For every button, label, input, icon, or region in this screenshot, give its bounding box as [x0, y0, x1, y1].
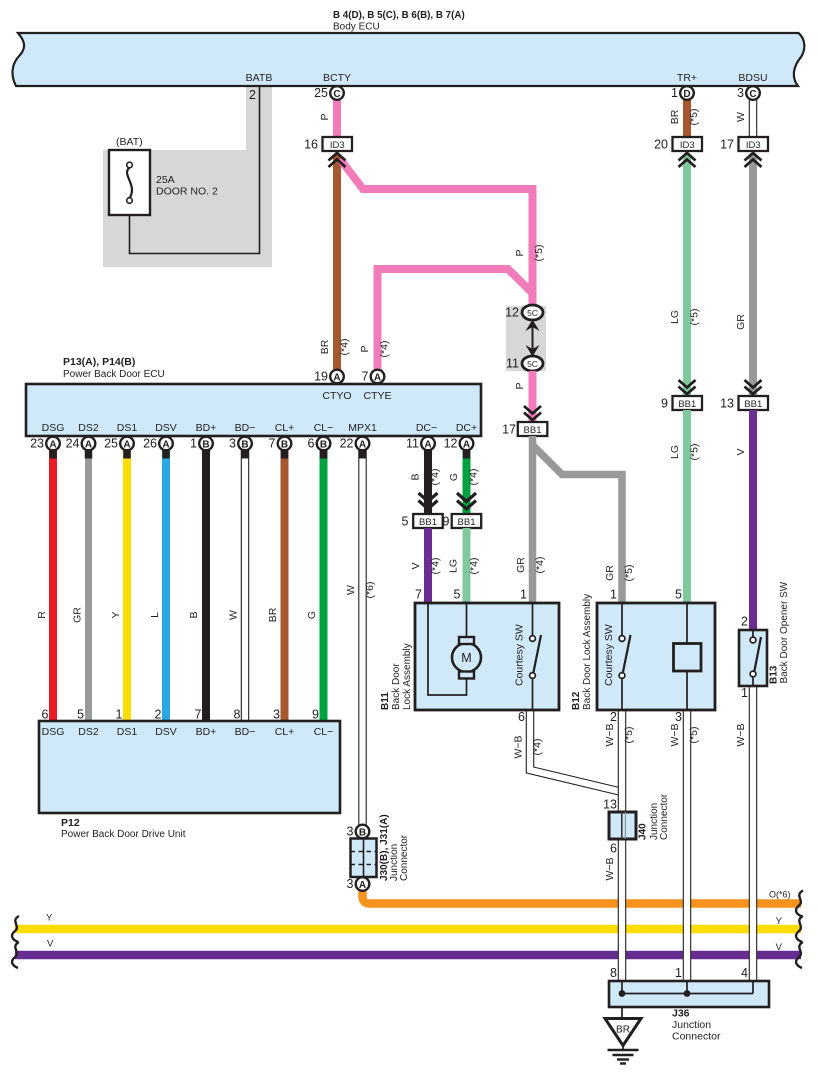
- wire GR (BDSU column): [749, 155, 757, 395]
- pin lead stub DSV: [162, 449, 170, 459]
- svg-text:2: 2: [249, 88, 256, 102]
- motor M: [452, 643, 481, 672]
- svg-text:7: 7: [195, 708, 202, 722]
- svg-text:P12: P12: [61, 817, 80, 829]
- wire LG (BB1 to B11 pin5): [463, 528, 471, 603]
- P12 box: [39, 721, 340, 813]
- wire BR from TR+: [683, 95, 691, 140]
- svg-text:(*6): (*6): [364, 582, 376, 599]
- connector 20 ID3: [673, 137, 703, 151]
- double arrow between 5C pins: [532, 326, 534, 350]
- chevron down above 13 BB1: [745, 380, 762, 394]
- svg-text:P: P: [359, 345, 371, 352]
- wire P branch to 5C: [340, 159, 533, 306]
- torn mark violet left: [12, 942, 19, 968]
- svg-text:9: 9: [443, 515, 450, 529]
- svg-text:7: 7: [269, 437, 276, 451]
- svg-text:CL+: CL+: [275, 422, 295, 434]
- svg-text:BB1: BB1: [678, 399, 696, 410]
- svg-text:Body ECU: Body ECU: [333, 22, 380, 33]
- pin lead stub DC+: [463, 449, 471, 459]
- svg-text:5: 5: [77, 708, 84, 722]
- torn mark yellow right: [796, 916, 803, 942]
- svg-text:BR: BR: [319, 339, 331, 354]
- chevron down above 9 BB1: [679, 380, 696, 394]
- svg-text:5: 5: [402, 515, 409, 529]
- svg-text:A: A: [123, 439, 130, 450]
- svg-text:(*4): (*4): [339, 339, 351, 356]
- svg-text:GR: GR: [515, 557, 527, 573]
- svg-text:Y: Y: [776, 916, 783, 927]
- svg-text:11: 11: [506, 357, 519, 371]
- svg-text:16: 16: [304, 138, 318, 152]
- svg-text:4: 4: [741, 966, 748, 980]
- J40 junction connector: [609, 812, 636, 839]
- svg-text:ID3: ID3: [746, 140, 761, 151]
- J36 junction connector: [609, 981, 769, 1007]
- wire P from BCTY: [333, 95, 341, 140]
- wire V (BB1 to B13 pin2): [749, 410, 757, 630]
- svg-text:9: 9: [312, 708, 319, 722]
- svg-text:P13(A), P14(B): P13(A), P14(B): [63, 356, 135, 368]
- svg-text:(*5): (*5): [623, 727, 635, 744]
- wire W-B (B11 pin6 to J40): [530, 710, 620, 792]
- svg-text:Y: Y: [46, 913, 53, 924]
- svg-text:Back Door Lock Assembly: Back Door Lock Assembly: [582, 594, 593, 710]
- svg-text:1: 1: [741, 686, 748, 700]
- svg-text:(*4): (*4): [532, 739, 544, 756]
- pin circle 26 A DSV: [143, 437, 173, 451]
- chevron down above 17 BB1: [524, 406, 541, 420]
- svg-text:(*5): (*5): [689, 309, 701, 326]
- svg-text:2: 2: [610, 710, 617, 724]
- wire GR branch to B12 courtesy SW: [533, 445, 623, 603]
- B13 Back Door Opener SW box: [739, 630, 767, 686]
- svg-text:BR: BR: [616, 1025, 630, 1036]
- svg-text:1: 1: [675, 966, 682, 980]
- svg-text:(BAT): (BAT): [116, 136, 143, 148]
- Body ECU bus bar: [13, 33, 805, 86]
- svg-text:DS2: DS2: [78, 726, 99, 738]
- svg-text:DC−: DC−: [416, 422, 437, 434]
- svg-text:A: A: [374, 372, 381, 383]
- pin circle 1 B BD+: [190, 437, 213, 451]
- svg-text:Back Door Opener SW: Back Door Opener SW: [779, 581, 790, 683]
- svg-text:5C: 5C: [527, 359, 538, 369]
- svg-text:G: G: [448, 473, 460, 481]
- svg-text:DSV: DSV: [155, 726, 177, 738]
- svg-text:1: 1: [520, 588, 527, 602]
- svg-text:Back Door: Back Door: [391, 663, 402, 710]
- svg-text:6: 6: [518, 710, 525, 724]
- svg-text:D: D: [683, 89, 690, 100]
- svg-text:17: 17: [720, 138, 734, 152]
- junction dot J36 pin8: [619, 990, 626, 997]
- wire LG (TR+ column): [683, 155, 691, 395]
- svg-text:BR: BR: [267, 607, 279, 622]
- svg-text:BATB: BATB: [246, 72, 273, 84]
- shaded battery-feed region: [103, 86, 272, 267]
- svg-text:W: W: [735, 112, 747, 122]
- junction dot J36 pin1: [684, 990, 691, 997]
- svg-text:3: 3: [273, 708, 280, 722]
- svg-text:ID3: ID3: [680, 140, 695, 151]
- svg-text:W−B: W−B: [604, 723, 616, 746]
- svg-text:3: 3: [347, 825, 354, 839]
- chevron up under 17 ID3: [745, 153, 762, 167]
- svg-text:6: 6: [42, 708, 49, 722]
- svg-text:B: B: [410, 473, 422, 480]
- wire GR (DS2 to P12-5): [85, 450, 92, 722]
- B11 internal wiring: [428, 603, 467, 695]
- svg-text:GR: GR: [604, 565, 616, 581]
- bus violet V: [15, 951, 801, 960]
- svg-text:LG: LG: [669, 310, 681, 324]
- svg-text:Courtesy SW: Courtesy SW: [514, 624, 526, 686]
- torn mark orange right: [796, 891, 803, 917]
- svg-text:W: W: [345, 585, 357, 595]
- pin lead stub DSG: [49, 449, 57, 459]
- pin circle 3 B BD-: [229, 437, 252, 451]
- svg-text:BD+: BD+: [196, 422, 217, 434]
- svg-text:CL+: CL+: [275, 726, 295, 738]
- svg-text:13: 13: [720, 397, 734, 411]
- wire B (BD+ to P12-7): [202, 450, 210, 722]
- svg-text:(*4): (*4): [534, 557, 546, 574]
- wire W-B (B12 pin2 through J40 to J36 pin8): [618, 709, 627, 981]
- svg-text:V: V: [47, 939, 54, 950]
- svg-text:(*5): (*5): [688, 109, 700, 126]
- svg-text:25A: 25A: [156, 174, 175, 186]
- svg-text:BDSU: BDSU: [738, 72, 767, 84]
- svg-text:(*4): (*4): [430, 558, 442, 575]
- svg-text:24: 24: [66, 437, 80, 451]
- pin circle 25 A DS1: [104, 437, 134, 451]
- wire G (DC+ to BB1): [463, 450, 471, 513]
- svg-text:3: 3: [347, 877, 354, 891]
- svg-text:W: W: [228, 610, 240, 620]
- pin lead stub DC-: [424, 449, 432, 459]
- svg-text:5C: 5C: [527, 308, 538, 318]
- bus yellow Y: [15, 925, 801, 934]
- svg-text:B12: B12: [571, 691, 582, 710]
- svg-text:C: C: [333, 89, 340, 100]
- B13 switch: [752, 630, 754, 686]
- svg-text:P: P: [514, 249, 526, 256]
- svg-text:1: 1: [190, 437, 197, 451]
- J30/J31 junction connector: [347, 825, 370, 839]
- connector 17 BB1: [518, 422, 548, 436]
- svg-text:B13: B13: [769, 665, 780, 684]
- shaded 5C connector region: [506, 306, 546, 371]
- svg-text:25: 25: [104, 437, 118, 451]
- connector 17 ID3: [739, 137, 769, 151]
- svg-text:V: V: [776, 942, 783, 953]
- svg-text:8: 8: [610, 966, 617, 980]
- wire G (CL- to P12-9): [320, 450, 328, 722]
- svg-text:DS2: DS2: [78, 422, 99, 434]
- svg-text:17: 17: [502, 423, 516, 437]
- wire Y (DS1 to P12-1): [123, 450, 131, 722]
- svg-text:DS1: DS1: [117, 726, 138, 738]
- svg-text:Power Back Door Drive Unit: Power Back Door Drive Unit: [61, 829, 186, 840]
- svg-text:BB1: BB1: [458, 517, 476, 528]
- connector 16 ID3: [323, 137, 353, 151]
- ground symbol: [622, 1046, 624, 1050]
- torn mark yellow left: [12, 916, 19, 942]
- pin circle 11 A DC-: [406, 437, 435, 451]
- svg-text:MPX1: MPX1: [348, 422, 377, 434]
- connector 9 BB1 (DC+): [452, 514, 482, 528]
- torn mark violet right: [796, 942, 803, 968]
- svg-text:DOOR NO. 2: DOOR NO. 2: [156, 186, 218, 198]
- svg-text:B 4(D), B 5(C), B 6(B), B 7(A): B 4(D), B 5(C), B 6(B), B 7(A): [333, 10, 465, 21]
- svg-text:(*5): (*5): [623, 565, 635, 582]
- svg-text:W−B: W−B: [604, 857, 616, 880]
- Power Back Door ECU box: [26, 384, 481, 436]
- svg-text:GR: GR: [72, 607, 84, 623]
- svg-text:7: 7: [415, 588, 422, 602]
- svg-text:(*5): (*5): [689, 444, 701, 461]
- B12 Back Door Lock Assembly box: [597, 603, 715, 710]
- wire GR (17 BB1 to B11 courtesy SW): [529, 436, 537, 603]
- svg-text:J40: J40: [638, 823, 649, 840]
- svg-text:BB1: BB1: [524, 425, 542, 436]
- pin circle 19 A CTYO: [330, 370, 344, 384]
- svg-text:B: B: [241, 439, 248, 450]
- svg-text:3: 3: [737, 86, 744, 100]
- svg-text:W−B: W−B: [513, 735, 525, 758]
- pin circle 12 A DC+: [444, 437, 474, 451]
- svg-text:(*4): (*4): [468, 558, 480, 575]
- svg-text:LG: LG: [448, 559, 460, 573]
- chevron up under 16 ID3: [329, 153, 346, 167]
- svg-text:V: V: [735, 448, 747, 455]
- svg-text:Y: Y: [110, 611, 122, 618]
- wire P to CTYE: [378, 269, 533, 370]
- svg-text:B: B: [188, 611, 200, 618]
- B11 courtesy switch: [532, 603, 534, 710]
- pin circle 24 A DS2: [66, 437, 96, 451]
- pin circle 6 B CL-: [308, 437, 331, 451]
- svg-text:(*5): (*5): [533, 245, 545, 262]
- wire W-B (B13 pin1 to J36 pin4): [749, 686, 758, 981]
- pin lead stub MPX1: [359, 449, 367, 459]
- svg-text:20: 20: [654, 138, 668, 152]
- svg-text:5: 5: [675, 588, 682, 602]
- chevron up under 20 ID3: [679, 153, 696, 167]
- svg-text:CTYO: CTYO: [322, 390, 351, 402]
- svg-text:GR: GR: [735, 314, 747, 330]
- svg-text:DSG: DSG: [42, 422, 65, 434]
- pin circle 3 C (BDSU): [746, 86, 760, 100]
- svg-text:A: A: [162, 439, 169, 450]
- svg-text:A: A: [49, 439, 56, 450]
- svg-text:BB1: BB1: [744, 399, 762, 410]
- svg-text:DSV: DSV: [155, 422, 177, 434]
- svg-text:Connector: Connector: [672, 1031, 721, 1043]
- svg-text:CL−: CL−: [314, 422, 334, 434]
- svg-text:B: B: [359, 827, 366, 838]
- svg-text:V: V: [410, 562, 422, 569]
- svg-text:P: P: [319, 113, 331, 120]
- svg-text:Lock Assembly: Lock Assembly: [402, 643, 413, 710]
- svg-text:19: 19: [314, 370, 328, 384]
- svg-text:O(*6): O(*6): [769, 890, 791, 900]
- svg-text:1: 1: [116, 708, 123, 722]
- connector 13 BB1: [739, 396, 769, 410]
- wire L (DSV to P12-2): [162, 450, 170, 722]
- oval 12 5C: [522, 305, 543, 320]
- svg-text:BD+: BD+: [196, 726, 217, 738]
- svg-text:ID3: ID3: [330, 140, 345, 151]
- svg-text:A: A: [359, 439, 366, 450]
- svg-text:26: 26: [143, 437, 157, 451]
- pin circle 22 A MPX1: [340, 437, 370, 451]
- fuse DOOR NO.2 box: [109, 150, 150, 215]
- B11 Back Door Lock Assembly box: [415, 603, 559, 710]
- svg-text:BR: BR: [669, 109, 681, 124]
- svg-text:R: R: [36, 611, 48, 619]
- svg-text:CTYE: CTYE: [363, 390, 391, 402]
- wire R (DSG to P12-6): [49, 450, 57, 722]
- wire LG (BB1 to B12 pin5): [683, 410, 691, 603]
- pin lead stub CL+: [281, 449, 289, 459]
- svg-text:TR+: TR+: [677, 72, 697, 84]
- svg-text:BB1: BB1: [419, 517, 437, 528]
- svg-text:3: 3: [229, 437, 236, 451]
- svg-text:6: 6: [308, 437, 315, 451]
- svg-text:W−B: W−B: [669, 723, 681, 746]
- svg-text:22: 22: [340, 437, 354, 451]
- svg-text:12: 12: [505, 306, 519, 320]
- svg-text:25: 25: [314, 86, 328, 100]
- pin circle 7 B CL+: [269, 437, 292, 451]
- svg-text:A: A: [463, 439, 470, 450]
- svg-text:(*4): (*4): [379, 341, 391, 358]
- wire BR (CL+ to P12-3): [281, 450, 289, 722]
- svg-text:13: 13: [603, 798, 617, 812]
- svg-text:2: 2: [155, 708, 162, 722]
- svg-text:BD−: BD−: [235, 726, 256, 738]
- svg-text:11: 11: [406, 437, 419, 451]
- wire BR (BCTY to CTYO): [333, 155, 341, 370]
- svg-text:(*5): (*5): [688, 727, 700, 744]
- svg-text:8: 8: [234, 708, 241, 722]
- svg-text:(*4): (*4): [468, 469, 480, 486]
- svg-text:A: A: [85, 439, 92, 450]
- pin lead stub DS1: [123, 449, 131, 459]
- wire P (5C to BB1): [529, 371, 537, 421]
- pin circle 23 A DSG: [30, 437, 60, 451]
- svg-text:G: G: [306, 611, 318, 619]
- svg-text:9: 9: [661, 397, 668, 411]
- svg-text:B: B: [281, 439, 288, 450]
- svg-text:DC+: DC+: [456, 422, 477, 434]
- pin circle 25 C (BCTY): [330, 86, 344, 100]
- svg-text:A: A: [333, 372, 340, 383]
- B12 latch block: [686, 603, 688, 709]
- svg-text:BD−: BD−: [235, 422, 256, 434]
- pin lead stub CL-: [320, 449, 328, 459]
- wire V (BB1 to B11 pin7): [424, 528, 432, 603]
- wire B (DC- to BB1): [424, 450, 432, 513]
- pin circle 1 D (TR+): [680, 86, 694, 100]
- svg-text:A: A: [424, 439, 431, 450]
- svg-text:12: 12: [444, 437, 458, 451]
- svg-text:2: 2: [741, 615, 748, 629]
- svg-text:7: 7: [362, 370, 369, 384]
- svg-text:J36: J36: [672, 1008, 690, 1020]
- svg-text:1: 1: [671, 86, 678, 100]
- svg-text:3: 3: [675, 710, 682, 724]
- svg-text:A: A: [359, 880, 366, 891]
- wire W MPX1 to J30: [358, 450, 367, 825]
- wire W-B (B12 pin3 to J36 pin1): [683, 709, 692, 981]
- svg-text:M: M: [461, 651, 471, 665]
- svg-text:P: P: [514, 382, 526, 389]
- svg-text:BCTY: BCTY: [323, 72, 351, 84]
- connector 9 BB1: [673, 396, 703, 410]
- svg-text:W−B: W−B: [735, 723, 747, 746]
- svg-text:1: 1: [610, 588, 617, 602]
- connector 5 BB1: [413, 514, 443, 528]
- svg-text:23: 23: [30, 437, 44, 451]
- chevron down above 9 BB1 (DC+): [457, 493, 476, 509]
- svg-text:Connector: Connector: [399, 834, 410, 881]
- svg-text:Power Back Door ECU: Power Back Door ECU: [63, 369, 165, 380]
- bus orange O(*6): [363, 891, 802, 904]
- pin lead stub DS2: [85, 449, 93, 459]
- svg-text:5: 5: [454, 588, 461, 602]
- svg-text:Connector: Connector: [659, 793, 670, 840]
- fuse element: [127, 168, 132, 199]
- svg-text:(*4): (*4): [429, 469, 441, 486]
- svg-text:Junction: Junction: [672, 1019, 711, 1031]
- svg-text:6: 6: [610, 842, 617, 856]
- ground triangle BR: [605, 1019, 641, 1046]
- svg-text:L: L: [149, 612, 161, 618]
- svg-text:C: C: [749, 89, 756, 100]
- B12 courtesy switch: [621, 603, 623, 709]
- svg-text:CL−: CL−: [314, 726, 334, 738]
- wire W from BDSU: [749, 95, 758, 140]
- ground lead: [621, 1007, 623, 1019]
- pin lead stub BD-: [241, 449, 249, 459]
- svg-text:B11: B11: [380, 692, 391, 710]
- oval 11 5C: [522, 356, 543, 371]
- wire W (BD- to P12-8): [241, 450, 250, 722]
- svg-text:DS1: DS1: [117, 422, 138, 434]
- pin lead stub BD+: [202, 449, 210, 459]
- svg-text:B: B: [320, 439, 327, 450]
- wire BATB feed (thin): [130, 87, 260, 254]
- pin circle 7 A CTYE: [371, 370, 385, 384]
- svg-text:B: B: [202, 439, 209, 450]
- svg-text:DSG: DSG: [42, 726, 65, 738]
- svg-text:LG: LG: [669, 445, 681, 459]
- svg-text:Courtesy SW: Courtesy SW: [603, 624, 615, 686]
- chevron down above 5 BB1: [419, 493, 438, 509]
